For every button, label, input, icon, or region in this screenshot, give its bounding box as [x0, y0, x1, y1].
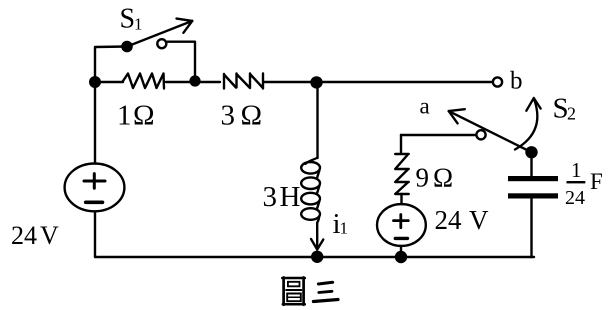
svg-text:1: 1 [117, 100, 132, 132]
svg-text:F: F [590, 169, 603, 194]
svg-text:V: V [469, 205, 489, 235]
svg-text:24: 24 [565, 187, 585, 209]
svg-text:9: 9 [416, 163, 430, 193]
svg-text:V: V [40, 221, 59, 250]
svg-text:b: b [510, 68, 523, 95]
svg-text:H: H [280, 181, 301, 213]
svg-text:S: S [120, 4, 136, 35]
svg-text:3: 3 [263, 181, 278, 213]
svg-text:Ω: Ω [133, 100, 155, 132]
svg-text:2: 2 [567, 104, 576, 124]
svg-text:3: 3 [221, 100, 236, 132]
svg-text:1: 1 [134, 15, 143, 34]
svg-text:24: 24 [11, 221, 37, 250]
svg-text:Ω: Ω [241, 100, 263, 132]
svg-text:24: 24 [435, 205, 463, 235]
svg-text:a: a [420, 94, 430, 119]
svg-text:1: 1 [571, 158, 582, 182]
svg-text:1: 1 [340, 219, 349, 238]
svg-text:Ω: Ω [433, 163, 453, 193]
